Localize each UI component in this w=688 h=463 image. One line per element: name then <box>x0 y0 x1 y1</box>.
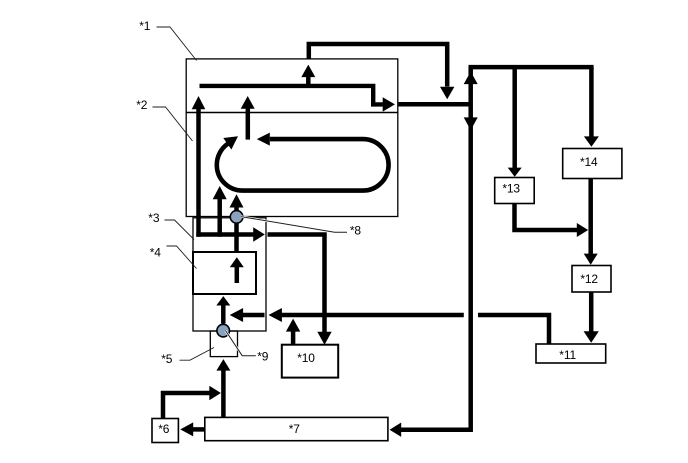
arrowhead up from circle *8 to racetrack <box>230 194 244 207</box>
arrowhead left on racetrack top <box>257 133 270 146</box>
wire drop to *14 <box>589 67 594 138</box>
leader line *5 <box>180 348 215 361</box>
arrowhead down into *13 <box>508 168 522 177</box>
arrowhead up loop exit x=248 <box>241 96 255 109</box>
wire *5 bottom arrow shaft <box>221 370 226 418</box>
box *6 <box>152 419 178 443</box>
wire *9 to *4 shaft <box>221 305 226 324</box>
svg-text:*6: *6 <box>158 422 170 436</box>
leader line *1 <box>157 27 197 61</box>
arrowhead down marker on right bus <box>464 117 478 130</box>
svg-text:*12: *12 <box>580 272 598 286</box>
arrowhead up marker on right bus below y=67 line <box>464 72 478 85</box>
wire y=234.5 right segment elbow down to *10 <box>268 235 325 333</box>
wire y=234.5 left segment <box>196 232 253 237</box>
wire vertical x=219.7 to racetrack bottom <box>217 199 222 237</box>
arrowhead up marker inside box *1 <box>301 65 315 78</box>
box *3 <box>193 218 266 331</box>
circle *9 <box>217 324 230 337</box>
svg-text:*13: *13 <box>502 182 520 196</box>
wire top-right horizontal y=67 <box>469 65 594 70</box>
wire top loop from box *1 top to right junction <box>309 44 447 87</box>
arrowhead left into box *3 on y=315 <box>230 308 243 322</box>
arrowhead up into *5 bottom <box>216 359 230 371</box>
leader line *8 <box>241 217 347 233</box>
leader line *4 <box>167 246 197 269</box>
wire *6 elbow to *5 column <box>163 393 210 419</box>
svg-text:*11: *11 <box>559 348 576 362</box>
wire y=315 middle segment <box>282 313 464 318</box>
wire loop exit arrow shaft x=248 <box>246 108 251 140</box>
arrowhead down into *10 <box>317 332 331 345</box>
svg-text:*5: *5 <box>161 352 173 366</box>
arrowhead up at x=198.5 top of box *2 <box>192 96 206 109</box>
wire y=315 right segment elbow down to *11 <box>478 315 549 344</box>
box *13 <box>495 178 535 204</box>
arrowhead left at box *3 edge on y=315 <box>269 308 282 322</box>
wire *12 to *11 <box>589 292 594 333</box>
arrowhead right exit of box *1 <box>383 97 395 111</box>
circle *8 <box>230 211 243 224</box>
wire *10 up arrow shaft <box>291 331 296 345</box>
svg-text:*4: *4 <box>150 245 162 259</box>
svg-text:*3: *3 <box>148 211 160 225</box>
racetrack loop inside box *2 <box>217 139 389 191</box>
leader line *3 <box>165 220 195 240</box>
box *1 outer rectangle <box>186 59 398 113</box>
box *7 <box>205 417 388 440</box>
arrowhead left into *7 right edge <box>390 423 402 437</box>
wire circle *8 down link to box *4 <box>234 223 239 252</box>
svg-text:*10: *10 <box>297 351 315 365</box>
wire *13 bottom elbow to *14 drop <box>515 204 578 231</box>
wire y=315 left segment into box *3 <box>243 313 265 318</box>
arrowhead NE at racetrack arc end <box>223 136 238 149</box>
arrowhead down into *12 <box>584 254 598 265</box>
wire up arrow shaft inside box *4 <box>235 267 240 284</box>
arrowhead right from *6 elbow <box>209 386 221 400</box>
wire drop to *13 <box>512 67 517 168</box>
wire up marker shaft inside box *1 <box>306 76 311 86</box>
arrowhead left into *6 <box>180 422 193 436</box>
wire *14 to *12 <box>588 179 593 255</box>
box *14 <box>563 149 622 179</box>
svg-text:*2: *2 <box>136 98 148 112</box>
arrowhead right at end of y=234.5 left segment <box>253 227 265 241</box>
wire long vertical x=198.5 <box>196 108 201 237</box>
arrowhead up from *9 to *4 <box>216 296 230 305</box>
box *4 <box>193 252 256 294</box>
wire rail inside box *1 <box>200 86 383 105</box>
svg-text:*14: *14 <box>580 155 598 169</box>
box *2 inner rectangle <box>186 113 398 217</box>
svg-text:*9: *9 <box>257 350 269 364</box>
arrowhead right from *13 elbow <box>577 223 588 237</box>
svg-text:*1: *1 <box>139 19 151 33</box>
svg-text:*8: *8 <box>350 224 362 238</box>
arrowhead down into *11 <box>584 331 599 343</box>
arrowhead down into *14 <box>584 136 599 146</box>
leader line *2 <box>153 107 193 141</box>
wire circle *8 up shaft <box>234 207 239 211</box>
box *5 <box>210 331 237 357</box>
arrowhead down at x=447 onto y=103 <box>440 87 454 100</box>
wire *7 to *6 shaft <box>193 427 205 432</box>
svg-text:*7: *7 <box>289 422 301 436</box>
arrowhead up inside box *4 <box>230 257 244 267</box>
box *11 <box>536 344 606 363</box>
leader line *9 <box>226 331 256 356</box>
arrowhead up at x=219.7 racetrack bottom <box>213 186 227 199</box>
arrowhead up from *10 to y=315 <box>286 319 300 332</box>
box *10 <box>282 345 338 378</box>
box *12 <box>572 266 611 293</box>
wire y=103 from box *1 edge to right bus <box>399 102 471 107</box>
wire right bus vertical with bottom elbow to *7 <box>401 67 471 430</box>
